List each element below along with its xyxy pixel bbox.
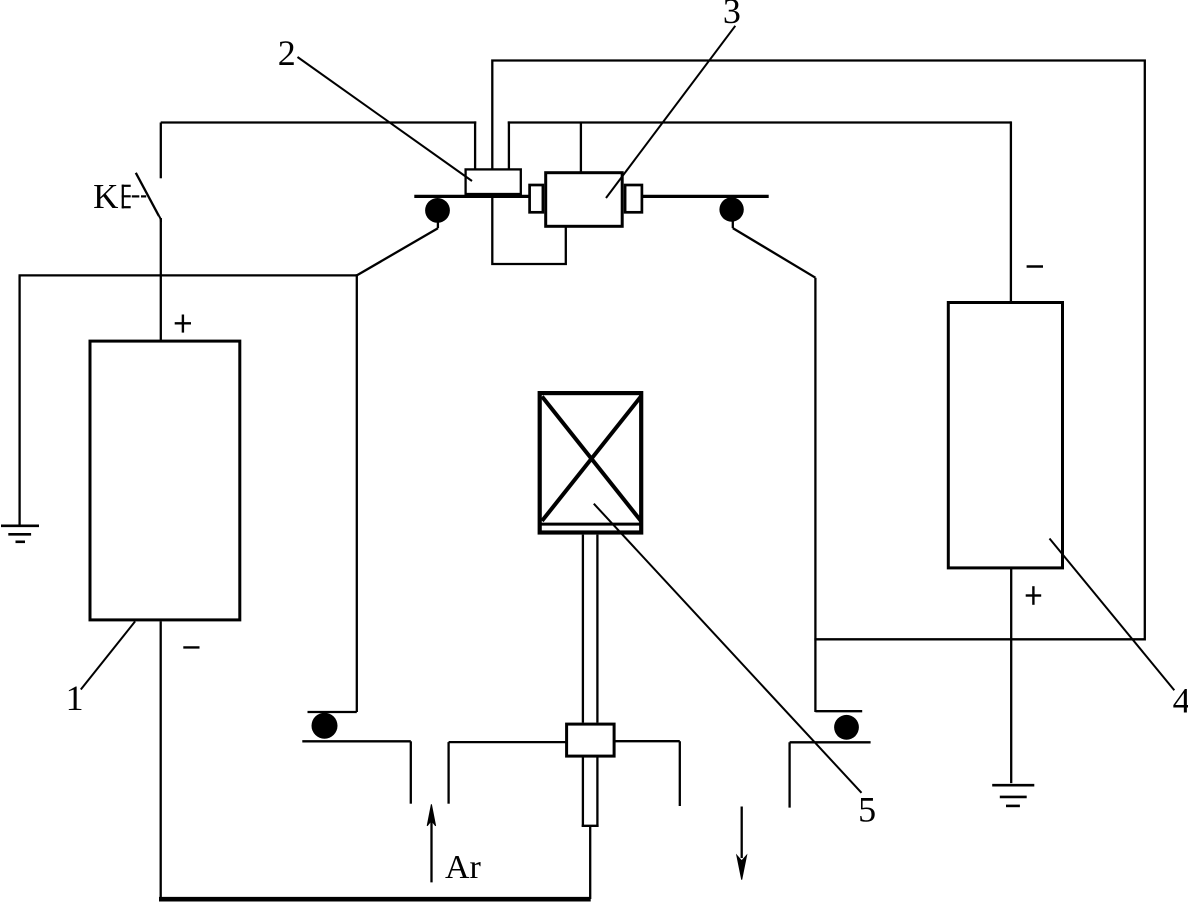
svg-text:Ar: Ar bbox=[445, 849, 482, 886]
svg-text:5: 5 bbox=[858, 790, 876, 830]
svg-text:3: 3 bbox=[723, 0, 741, 31]
svg-text:K: K bbox=[93, 177, 118, 216]
svg-text:1: 1 bbox=[66, 678, 84, 718]
svg-text:2: 2 bbox=[278, 33, 296, 73]
svg-text:4: 4 bbox=[1173, 681, 1188, 721]
